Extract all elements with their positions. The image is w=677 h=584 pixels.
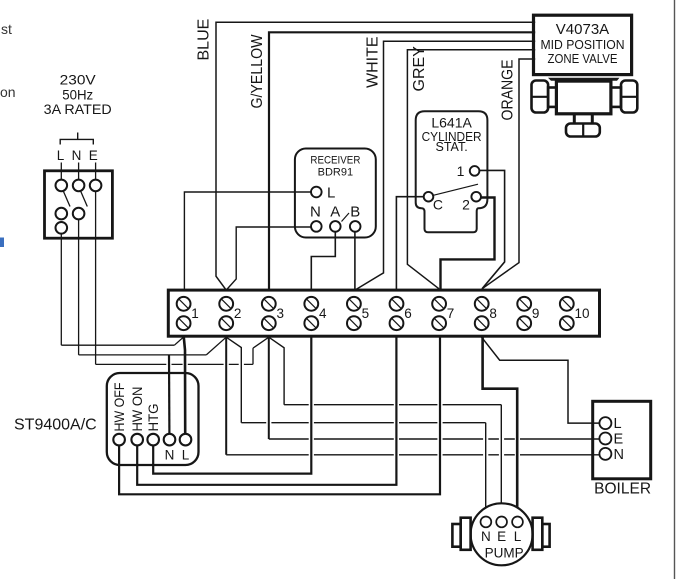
programmer terminals: [113, 434, 125, 446]
svg-text:L: L: [614, 416, 622, 432]
wire GREY from valve to terminal 7: [407, 50, 535, 289]
wire receiver A to terminal 4: [311, 232, 335, 290]
wire L to terminal 1: [61, 344, 174, 346]
pump right flange: [533, 518, 543, 550]
pump left flange: [461, 518, 471, 550]
svg-text:HW OFF: HW OFF: [112, 383, 127, 432]
wire G/YELLOW from valve to terminal 3: [269, 32, 535, 290]
valve bottom nut: [566, 124, 600, 137]
svg-text:4: 4: [319, 306, 327, 321]
svg-text:ZONE VALVE: ZONE VALVE: [548, 51, 618, 66]
svg-text:BLUE: BLUE: [195, 19, 212, 61]
svg-text:V4073A: V4073A: [556, 21, 609, 38]
wire stat 2 to terminal 7: [441, 198, 495, 291]
svg-text:on: on: [0, 84, 16, 100]
svg-text:N: N: [481, 529, 491, 544]
stat terminal 1: [470, 166, 480, 176]
wire WHITE from valve to terminal 5: [355, 41, 535, 290]
svg-text:G/YELLOW: G/YELLOW: [249, 34, 266, 109]
wire terminal 2 right branch to pump N: [226, 337, 241, 423]
svg-text:9: 9: [532, 306, 540, 321]
bracket under 3A RATED: [60, 139, 93, 144]
svg-text:ST9400A/C: ST9400A/C: [14, 417, 97, 434]
svg-text:B: B: [350, 204, 360, 221]
terminal 8: [475, 297, 489, 311]
svg-text:GREY: GREY: [411, 46, 428, 92]
junction box: [45, 171, 113, 238]
terminal 5: [347, 297, 361, 311]
wire terminal 4 to programmer HTG: [153, 337, 311, 473]
boiler terminals L E N: [599, 417, 611, 429]
stat switch arm: [433, 184, 478, 195]
junction box terminals: [60, 163, 62, 180]
terminal 4: [304, 297, 318, 311]
svg-text:2: 2: [462, 197, 470, 213]
terminal 2: [219, 297, 233, 311]
cut-off blue mark: [0, 238, 4, 248]
page border line right: [674, 0, 676, 579]
wire junction E down: [95, 191, 97, 364]
wire: receiver L to terminal 1: [184, 192, 311, 290]
wire N to terminal 2: [79, 354, 207, 356]
svg-text:1: 1: [457, 163, 465, 179]
valve left connector: [548, 88, 556, 107]
wire terminal 7 to programmer HW OFF: [119, 337, 440, 494]
svg-text:N: N: [614, 447, 624, 463]
wire receiver B to terminal 5: [354, 232, 356, 290]
wire ORANGE from valve to terminal 8: [482, 59, 535, 289]
receiver BDR91 box: [295, 149, 376, 238]
wire terminal 3 straight down to boiler E: [268, 337, 270, 439]
svg-text:st: st: [1, 21, 12, 37]
terminal 6: [390, 297, 404, 311]
svg-text:HTG: HTG: [146, 404, 161, 432]
svg-text:A: A: [330, 204, 340, 221]
receiver terminals N A B: [311, 221, 322, 232]
valve right connector: [611, 88, 621, 107]
terminal 7: [432, 297, 446, 311]
svg-text:L: L: [182, 448, 190, 463]
terminal 10: [560, 297, 574, 311]
valve body assembly: [548, 78, 620, 81]
svg-text:7: 7: [447, 306, 455, 321]
svg-text:10: 10: [575, 306, 590, 321]
wire junction N down: [78, 219, 80, 355]
svg-text:N: N: [165, 448, 175, 463]
wire E to terminal 3 branch: [96, 363, 253, 365]
svg-text:PUMP: PUMP: [485, 546, 524, 561]
receiver terminal L: [311, 187, 322, 198]
pump terminals N E L: [481, 517, 492, 528]
svg-text:L: L: [327, 184, 335, 201]
svg-text:L: L: [57, 148, 65, 163]
valve right nut: [621, 81, 637, 113]
boiler box: [593, 401, 651, 479]
svg-text:1: 1: [191, 306, 199, 321]
zone valve V4073A box: [534, 15, 632, 74]
wire terminal 3 right branch to pump E: [269, 337, 284, 405]
wire stat 1 to terminal 8: [479, 170, 504, 288]
svg-text:E: E: [89, 148, 98, 163]
svg-text:6: 6: [404, 306, 412, 321]
wire terminal 1 to programmer L (thick): [184, 337, 185, 434]
wire BLUE vertical from valve to terminal 2: [216, 22, 535, 290]
svg-text:ORANGE: ORANGE: [499, 60, 516, 121]
terminal 9: [517, 297, 531, 311]
terminal strip: [168, 290, 599, 336]
programmer box: [107, 373, 199, 465]
wire terminal 6 to programmer HW ON: [137, 337, 396, 485]
svg-text:C: C: [433, 197, 443, 213]
svg-text:BDR91: BDR91: [318, 166, 353, 178]
wire stat C to terminal 6: [396, 197, 423, 290]
svg-text:WHITE: WHITE: [364, 36, 381, 88]
valve bottom pipe: [573, 114, 576, 124]
wire junction L down: [60, 233, 62, 345]
junction box switch links: [64, 192, 71, 207]
wire receiver N to terminal 2: [226, 227, 311, 290]
svg-text:MID POSITION: MID POSITION: [541, 37, 625, 52]
cylinder stat L641A outline: [416, 111, 488, 232]
svg-text:HW ON: HW ON: [130, 387, 145, 432]
svg-text:N: N: [72, 148, 82, 163]
svg-text:L641A: L641A: [431, 115, 472, 131]
svg-text:3: 3: [277, 306, 285, 321]
stat terminal C: [424, 192, 434, 202]
svg-text:RECEIVER: RECEIVER: [310, 155, 360, 167]
wire programmer N up to N horizontal: [168, 355, 171, 434]
svg-text:N: N: [310, 204, 321, 221]
svg-text:STAT.: STAT.: [436, 140, 468, 154]
svg-text:L: L: [514, 529, 522, 544]
pump circle: [471, 503, 533, 565]
svg-text:E: E: [497, 529, 506, 544]
valve left nut: [532, 81, 549, 113]
svg-text:3A RATED: 3A RATED: [44, 101, 112, 117]
receiver switch arm: [342, 213, 350, 222]
wire terminal 8 to boiler L: [482, 337, 600, 423]
svg-text:5: 5: [362, 306, 370, 321]
svg-text:2: 2: [234, 306, 242, 321]
svg-text:8: 8: [489, 306, 497, 321]
terminal 1: [177, 297, 191, 311]
svg-text:230V: 230V: [60, 72, 97, 88]
wire terminal 8 to pump L (thick): [483, 337, 518, 516]
svg-text:E: E: [614, 432, 624, 448]
svg-text:BOILER: BOILER: [594, 481, 651, 498]
terminal 3: [262, 297, 276, 311]
stat terminal 2: [471, 192, 481, 202]
wire terminal 2 straight down to boiler N: [225, 337, 227, 455]
